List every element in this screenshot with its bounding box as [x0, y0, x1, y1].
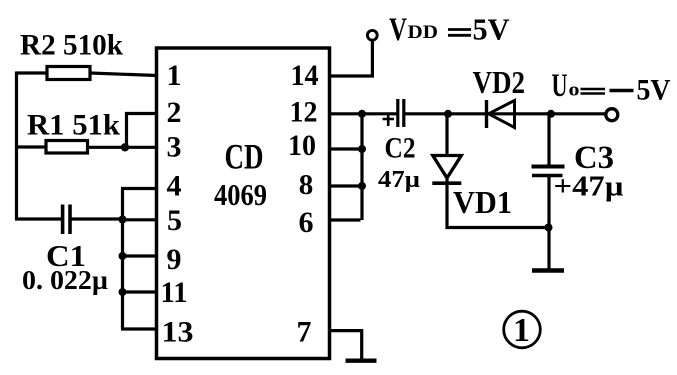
- capacitor C2 polarity plus: [383, 114, 395, 127]
- IC U1 CD4069 body: [157, 48, 330, 359]
- svg-text:+47µ: +47µ: [554, 171, 624, 203]
- svg-text:11: 11: [161, 276, 188, 309]
- pin 7 number: [297, 316, 312, 349]
- wire C1 right to node C: [70, 217, 123, 220]
- capacitor C3 name label: [574, 140, 614, 176]
- wire node B up to pin 2: [127, 114, 159, 148]
- svg-text:V: V: [389, 12, 407, 48]
- svg-text:12: 12: [290, 96, 318, 129]
- wire R2 right to pin 1: [90, 73, 157, 76]
- svg-text:47µ: 47µ: [378, 167, 420, 193]
- ground bar under pin 7: [346, 359, 377, 363]
- svg-text:R2 510k: R2 510k: [20, 29, 123, 62]
- junction dot node G: [545, 224, 553, 232]
- junction dot node E VD1 top: [444, 110, 452, 118]
- resistor R1 value label: [27, 109, 120, 142]
- svg-text:8: 8: [299, 169, 314, 201]
- wire pin 8 to node D: [329, 184, 362, 187]
- svg-text:VD1: VD1: [453, 184, 512, 220]
- pin 8 number: [299, 169, 314, 201]
- diode VD1 name label: [453, 184, 512, 220]
- junction dot node B on R1 wire: [121, 143, 129, 151]
- svg-text:DD: DD: [408, 23, 439, 43]
- svg-text:6: 6: [299, 206, 314, 239]
- power terminal VDD circle: [367, 30, 377, 40]
- resistor R1 body: [46, 141, 88, 154]
- capacitor C1 name label: [46, 238, 86, 273]
- diode VD1 triangle: [433, 156, 462, 179]
- svg-text:VD2: VD2: [473, 64, 526, 100]
- svg-text:0. 022µ: 0. 022µ: [22, 265, 108, 295]
- pin 3 number: [167, 131, 182, 164]
- junction dot node F: [547, 110, 555, 118]
- svg-text:C2: C2: [385, 132, 416, 165]
- pin 13 number: [162, 316, 194, 349]
- wire pin 10 to node D: [329, 147, 362, 150]
- wire pin 7 to ground: [329, 331, 362, 359]
- diode VD1 cathode bar: [432, 181, 461, 185]
- power label VDD=5V: [389, 12, 510, 49]
- svg-text:4: 4: [167, 170, 182, 203]
- figure number circled 1: [504, 311, 541, 349]
- capacitor C1 value label: [22, 265, 108, 295]
- junction dot node C pin 5: [119, 216, 127, 224]
- junction dot node D pin 12: [358, 110, 366, 118]
- wire node C to pin 5: [123, 218, 159, 221]
- diode VD2 name label: [473, 64, 526, 100]
- wire node C to pin 4: [121, 187, 158, 190]
- svg-text:CD: CD: [225, 137, 264, 177]
- junction dot node D pin 10: [358, 145, 366, 153]
- pin 1 number: [167, 59, 182, 92]
- wire R1 right to pin 3: [88, 146, 159, 149]
- diode VD2 cathode bar: [485, 100, 488, 128]
- wire node A to R2 left: [16, 71, 48, 74]
- wire VD1 cathode down and right to node G: [447, 178, 549, 228]
- node D output bus vertical: [360, 114, 363, 220]
- resistor R2 value label: [20, 29, 123, 62]
- capacitor C3 top plate: [532, 165, 565, 169]
- pin 2 number: [167, 96, 182, 129]
- diode VD2 triangle: [489, 101, 515, 128]
- capacitor C2 name label: [385, 132, 416, 165]
- wire node C to pin 9: [123, 254, 159, 257]
- IC label 4069: [214, 177, 267, 212]
- svg-text:5V: 5V: [473, 12, 511, 47]
- IC label CD: [225, 137, 264, 177]
- node C input bus vertical: [121, 189, 124, 330]
- svg-text:14: 14: [291, 59, 319, 92]
- svg-text:U: U: [552, 68, 568, 104]
- pin 12 number: [290, 96, 318, 129]
- diode VD1 anode wire from node E: [445, 114, 448, 156]
- svg-text:4069: 4069: [214, 177, 267, 212]
- pin 5 number: [167, 204, 182, 237]
- svg-text:5: 5: [167, 204, 182, 237]
- capacitor C3 value label with polarity: [554, 171, 624, 203]
- svg-text:9: 9: [167, 243, 182, 276]
- resistor R2 body: [47, 67, 90, 80]
- svg-text:5V: 5V: [637, 74, 671, 107]
- wire C2 right to node E and VD2: [404, 112, 487, 115]
- wire C3 bottom to node G and ground: [547, 176, 550, 269]
- pin 10 number: [288, 129, 316, 162]
- wire pin 6 to node D: [329, 218, 361, 221]
- wire node C to pin 13: [121, 327, 158, 330]
- svg-text:3: 3: [167, 131, 182, 164]
- output label Uo=-5V: [552, 68, 671, 107]
- capacitor C1 right plate: [68, 205, 72, 235]
- capacitor C3 bottom plate: [532, 174, 563, 177]
- svg-text:7: 7: [297, 316, 312, 349]
- wire node A to C1 left: [15, 217, 61, 220]
- junction dot node D pin 8: [358, 182, 366, 190]
- capacitor C2 value label: [378, 167, 420, 193]
- junction dot node C pin 9: [119, 252, 127, 260]
- pin 14 number: [291, 59, 319, 92]
- pin 6 number: [299, 206, 314, 239]
- ground bar under C3: [532, 268, 564, 273]
- wire node C to pin 11: [123, 290, 159, 293]
- wire node A to R1 left: [16, 145, 46, 148]
- svg-text:1: 1: [513, 312, 530, 349]
- svg-text:13: 13: [162, 316, 194, 349]
- capacitor C1 left plate: [61, 205, 65, 235]
- svg-text:R1 51k: R1 51k: [27, 109, 120, 142]
- junction dot node C pin 11: [119, 288, 127, 296]
- svg-text:o: o: [569, 80, 580, 101]
- pin 11 number: [161, 276, 188, 309]
- wire pin 12 to node D and C2: [329, 112, 397, 115]
- svg-text:1: 1: [167, 59, 182, 92]
- capacitor C2 right plate: [402, 99, 405, 127]
- output terminal Uo circle: [606, 109, 618, 121]
- pin 9 number: [167, 243, 182, 276]
- capacitor C2 left plate: [396, 99, 399, 127]
- wire node A vertical (R2/R1/C1 left rail): [15, 72, 18, 220]
- svg-text:10: 10: [288, 129, 316, 162]
- wire VDD terminal to pin 14: [329, 40, 372, 76]
- wire node F down to C3: [547, 114, 550, 166]
- wire VD2 inside and to node F: [487, 112, 606, 115]
- pin 4 number: [167, 170, 182, 203]
- svg-text:2: 2: [167, 96, 182, 129]
